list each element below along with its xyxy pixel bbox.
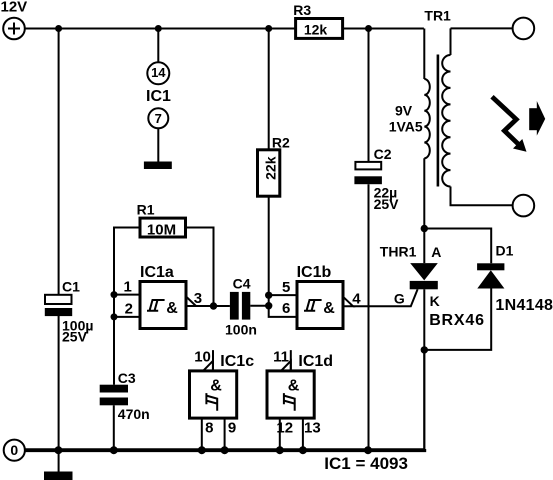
svg-text:12V: 12V bbox=[1, 0, 28, 16]
svg-text:C3: C3 bbox=[118, 370, 136, 386]
svg-text:C1: C1 bbox=[62, 279, 80, 295]
svg-text:470n: 470n bbox=[118, 406, 150, 422]
svg-text:22k: 22k bbox=[262, 156, 278, 180]
svg-text:D1: D1 bbox=[496, 242, 514, 258]
svg-text:IC1: IC1 bbox=[146, 88, 171, 105]
svg-text:THR1: THR1 bbox=[380, 243, 417, 259]
svg-text:&: & bbox=[166, 300, 178, 317]
svg-text:100n: 100n bbox=[225, 321, 257, 337]
svg-text:BRX46: BRX46 bbox=[429, 312, 485, 329]
svg-text:25V: 25V bbox=[62, 329, 88, 345]
svg-text:IC1b: IC1b bbox=[297, 264, 332, 281]
svg-text:K: K bbox=[430, 293, 440, 309]
svg-text:1N4148: 1N4148 bbox=[495, 297, 553, 314]
svg-text:&: & bbox=[288, 378, 300, 395]
svg-text:11: 11 bbox=[273, 348, 289, 365]
svg-text:&: & bbox=[210, 378, 222, 395]
svg-text:R2: R2 bbox=[272, 135, 290, 151]
svg-text:3: 3 bbox=[194, 290, 202, 307]
svg-text:9: 9 bbox=[228, 419, 236, 436]
svg-text:5: 5 bbox=[282, 279, 290, 296]
svg-text:12k: 12k bbox=[304, 21, 328, 37]
svg-text:IC1c: IC1c bbox=[220, 353, 254, 370]
svg-text:&: & bbox=[323, 300, 335, 317]
svg-text:TR1: TR1 bbox=[424, 8, 451, 24]
svg-text:9V: 9V bbox=[395, 102, 413, 118]
svg-text:IC1 = 4093: IC1 = 4093 bbox=[324, 454, 408, 473]
svg-text:R3: R3 bbox=[293, 2, 311, 18]
svg-text:25V: 25V bbox=[374, 196, 400, 212]
svg-text:C4: C4 bbox=[233, 275, 251, 291]
svg-text:0: 0 bbox=[10, 442, 18, 458]
svg-text:6: 6 bbox=[282, 300, 290, 317]
svg-text:13: 13 bbox=[304, 419, 321, 436]
svg-text:R1: R1 bbox=[137, 201, 155, 217]
svg-text:1VA5: 1VA5 bbox=[389, 118, 423, 134]
svg-text:G: G bbox=[394, 290, 405, 306]
svg-text:7: 7 bbox=[155, 111, 162, 126]
svg-text:14: 14 bbox=[151, 65, 166, 80]
svg-text:1: 1 bbox=[123, 279, 131, 296]
svg-text:C2: C2 bbox=[374, 146, 392, 162]
svg-text:A: A bbox=[431, 244, 441, 260]
svg-text:10M: 10M bbox=[147, 222, 176, 239]
svg-text:10: 10 bbox=[194, 348, 211, 365]
svg-text:4: 4 bbox=[352, 291, 361, 308]
svg-text:8: 8 bbox=[205, 419, 213, 436]
svg-text:IC1a: IC1a bbox=[140, 264, 174, 281]
svg-text:2: 2 bbox=[125, 301, 133, 318]
svg-text:12: 12 bbox=[276, 419, 293, 436]
svg-text:IC1d: IC1d bbox=[298, 353, 333, 370]
